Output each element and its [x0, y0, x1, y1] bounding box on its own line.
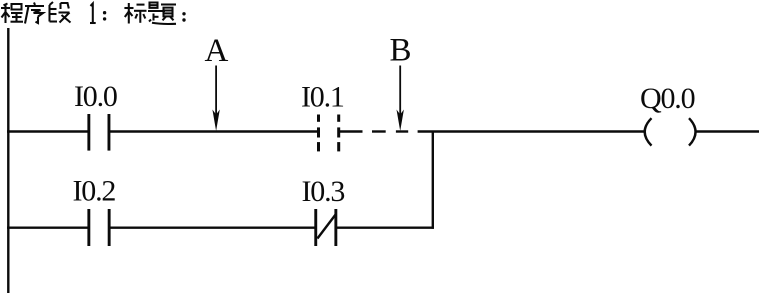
svg-text:Q0.0: Q0.0 [640, 82, 695, 115]
svg-text:I0.1: I0.1 [301, 81, 344, 114]
wire rung1: after coil to right edge [697, 130, 759, 132]
wire rung1: short lead after I0.1 [339, 130, 363, 132]
svg-text:B: B [390, 33, 412, 69]
glyph 段 [50, 2, 71, 23]
wire rung2: I0.3 to junction [335, 226, 434, 228]
wire rung1: rail to I0.0 [7, 130, 89, 132]
wire rung2: I0.2 to I0.3 [110, 226, 316, 228]
marker A arrow [212, 66, 219, 132]
fullwidth colon 2 [182, 12, 185, 22]
svg-text:I0.0: I0.0 [74, 80, 117, 113]
glyph 题 [148, 3, 176, 25]
contact I0.3 (normally closed) [314, 209, 337, 246]
dashed wire segment 2 [396, 130, 408, 132]
svg-text:A: A [205, 33, 229, 69]
contact I0.1 (dashed bars) [317, 115, 340, 152]
slash of I0.3 [317, 215, 335, 239]
left power rail [7, 28, 9, 293]
wire rung1: to coil Q0.0 [418, 130, 644, 132]
glyph 标 [124, 3, 146, 24]
glyph 序 [25, 3, 44, 24]
contact I0.0 [87, 114, 110, 151]
fullwidth colon [103, 11, 106, 21]
svg-text:I0.2: I0.2 [73, 175, 116, 208]
network title: 程序段1：标题： (hand-drawn glyphs) [1, 2, 186, 24]
wire rung2: rail to I0.2 [7, 226, 89, 228]
dashed wire segment 1 [372, 130, 386, 132]
contact I0.2 [87, 209, 110, 246]
vertical junction wire between rung1 and rung2 [432, 132, 434, 229]
coil Q0.0 [645, 118, 696, 145]
wire rung1: I0.0 to I0.1 [109, 130, 318, 132]
marker B arrow [397, 66, 404, 132]
glyph 程 [1, 4, 23, 24]
svg-text:I0.3: I0.3 [302, 175, 345, 208]
glyph 1 [90, 4, 96, 24]
